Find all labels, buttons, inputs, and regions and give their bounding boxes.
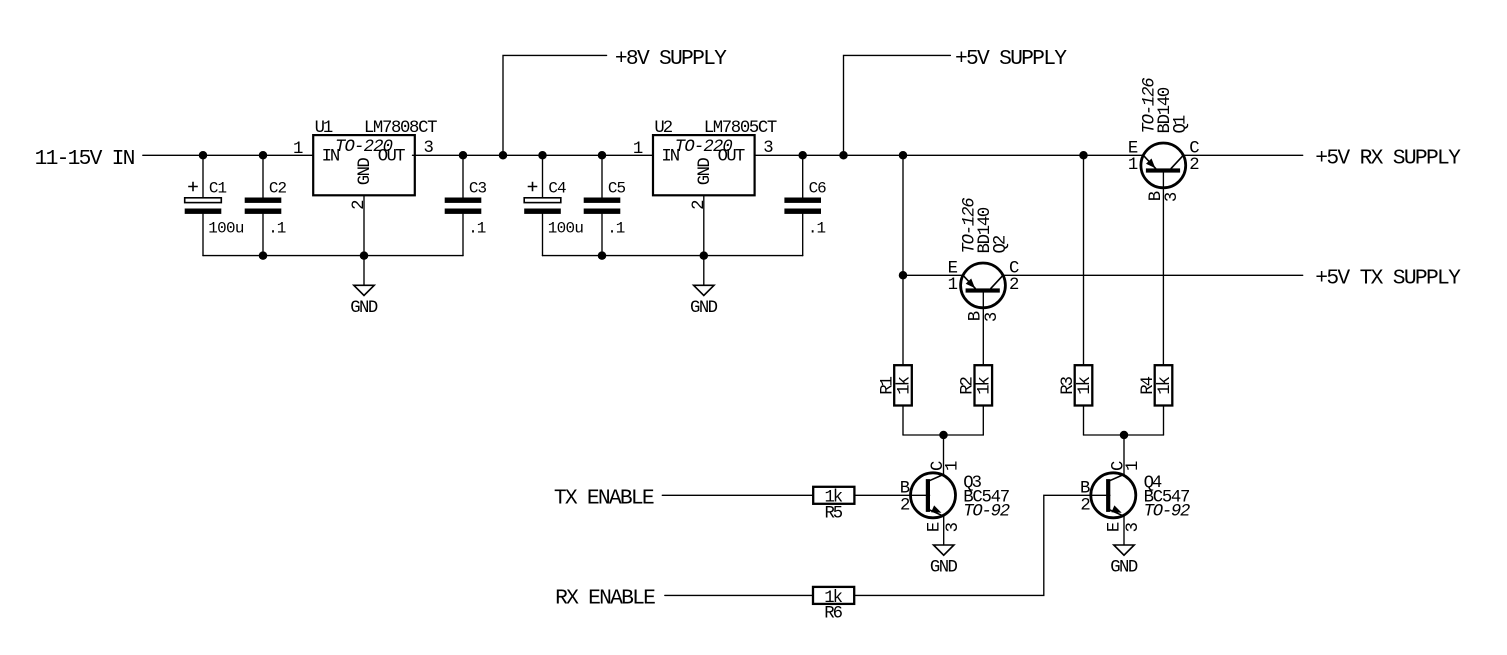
svg-text:2: 2 <box>900 497 910 516</box>
Q2 collector line <box>991 275 1003 288</box>
junction C6 on +5V rail <box>798 151 807 160</box>
svg-text:1: 1 <box>944 461 963 471</box>
svg-text:2: 2 <box>1189 156 1199 175</box>
svg-text:11-15V IN: 11-15V IN <box>35 147 136 171</box>
wire +5V rail down to R1 <box>902 155 904 365</box>
wire U1 pin 2 to ground rail <box>363 195 365 255</box>
svg-text:1: 1 <box>293 140 303 159</box>
svg-text:2: 2 <box>1009 276 1019 295</box>
junction R1 column on +5V rail <box>899 151 908 160</box>
svg-text:2: 2 <box>350 200 369 210</box>
capacitor C3 <box>445 155 487 255</box>
svg-text:3: 3 <box>763 139 773 158</box>
C5 top plate <box>584 198 621 203</box>
wire C1 top lead <box>202 155 204 197</box>
Q2 emitter line <box>963 275 975 288</box>
svg-text:+5V RX SUPPLY: +5V RX SUPPLY <box>1315 147 1461 171</box>
C1 positive plate <box>185 198 222 203</box>
C2 bottom plate <box>245 209 282 214</box>
svg-text:TX ENABLE: TX ENABLE <box>554 487 655 511</box>
svg-text:U1: U1 <box>315 119 334 138</box>
C4 plus sign <box>528 182 538 192</box>
svg-text:C5: C5 <box>608 179 626 197</box>
regulator U2 U2 LM7805CT <box>633 119 777 256</box>
wire +5V rail down to R3 <box>1083 155 1085 365</box>
U2 body <box>653 135 755 195</box>
svg-text:1k: 1k <box>1076 376 1095 395</box>
transistor Q3 BC547 NPN <box>900 461 1010 533</box>
Q4 base line <box>1091 494 1110 496</box>
transistor Q2 BD140 PNP <box>948 197 1020 322</box>
wire C2 top lead <box>262 155 264 197</box>
wire C5 top lead <box>601 155 603 197</box>
svg-text:IN: IN <box>661 147 680 166</box>
svg-text:IN: IN <box>322 147 341 166</box>
svg-text:3: 3 <box>424 139 434 158</box>
svg-text:GND: GND <box>1110 559 1138 578</box>
wire R2 bottom <box>982 406 984 436</box>
svg-text:1k: 1k <box>1156 376 1175 395</box>
svg-text:U2: U2 <box>654 119 673 138</box>
Q2 base bar <box>966 288 1000 292</box>
svg-text:GND: GND <box>356 157 375 185</box>
wire C2 bottom lead <box>262 214 264 256</box>
svg-text:1: 1 <box>1128 156 1138 175</box>
svg-text:E: E <box>1106 522 1125 532</box>
capacitor C4 <box>524 155 584 255</box>
svg-text:1: 1 <box>1124 461 1143 471</box>
svg-text:RX ENABLE: RX ENABLE <box>555 587 656 611</box>
svg-text:.1: .1 <box>808 220 826 238</box>
capacitor C6 <box>784 155 826 255</box>
svg-text:Q2: Q2 <box>991 235 1010 254</box>
svg-text:LM7805CT: LM7805CT <box>704 119 778 138</box>
svg-text:2: 2 <box>1080 497 1090 516</box>
junction +5V supply tap <box>839 151 848 160</box>
wire U2 pin 2 to ground rail <box>703 195 705 255</box>
wire Q1 base down to R4 <box>1162 172 1164 365</box>
wire R4 bottom <box>1163 406 1165 436</box>
svg-text:+8V SUPPLY: +8V SUPPLY <box>615 47 727 71</box>
junction C4 on +8V rail <box>538 151 547 160</box>
ground symbol GND under U1 <box>350 256 378 318</box>
C2 top plate <box>245 198 282 203</box>
Q1 base bar <box>1146 168 1180 172</box>
resistor R5 1k <box>813 487 854 524</box>
wire ground rail stage 2 <box>543 255 803 257</box>
svg-text:100u: 100u <box>208 220 244 238</box>
wire C4 top lead <box>542 155 544 197</box>
Q3 emitter arrow <box>931 505 941 512</box>
svg-text:GND: GND <box>930 559 958 578</box>
Q3 base line <box>911 494 930 496</box>
wire U2 out +5V rail to Q1 emitter <box>755 154 1144 156</box>
svg-text:3: 3 <box>944 522 963 532</box>
svg-text:3: 3 <box>983 312 1002 322</box>
Q4 emitter arrow <box>1111 505 1121 512</box>
svg-text:1k: 1k <box>895 376 914 395</box>
svg-text:GND: GND <box>696 157 715 185</box>
C3 top plate <box>445 198 482 203</box>
wire TX ENABLE to R5 <box>662 494 813 496</box>
junction C2 on input rail <box>259 151 268 160</box>
svg-text:C1: C1 <box>209 179 227 197</box>
svg-text:R5: R5 <box>824 504 843 523</box>
svg-text:1k: 1k <box>976 376 995 395</box>
ground symbol GND under Q4 <box>1110 515 1138 577</box>
junction C3 on +8V rail <box>459 151 468 160</box>
wire Q1 collector to +5V RX SUPPLY <box>1183 154 1302 156</box>
junction R3 column on +5V rail <box>1079 151 1088 160</box>
Q4 base bar <box>1106 479 1110 512</box>
wire junction down to Q3 collector <box>943 435 945 474</box>
wire Q2 collector to +5V TX SUPPLY <box>1003 274 1303 276</box>
svg-text:C4: C4 <box>548 179 566 197</box>
svg-text:100u: 100u <box>548 220 584 238</box>
C6 bottom plate <box>784 209 821 214</box>
junction C2 on ground rail <box>259 251 268 260</box>
transistor Q4 BC547 NPN <box>1080 461 1190 533</box>
Q3 emitter line <box>929 510 943 516</box>
wire R1 to Q3 collector rail <box>902 406 904 436</box>
junction R1/R2 to Q3 collector <box>939 431 948 440</box>
wire +5V supply riser <box>844 55 951 155</box>
svg-text:.1: .1 <box>268 220 286 238</box>
Q3 collector line <box>929 474 943 480</box>
C3 bottom plate <box>445 209 482 214</box>
Q1 emitter arrow <box>1146 159 1155 169</box>
ground symbol GND under Q3 <box>930 515 958 577</box>
svg-text:GND: GND <box>350 299 378 318</box>
C4 bottom plate <box>524 209 561 214</box>
C5 bottom plate <box>584 209 621 214</box>
svg-text:OUT: OUT <box>378 147 406 166</box>
C4 positive plate <box>524 198 561 203</box>
wire C4 bottom lead <box>542 214 544 256</box>
junction U1 pin2 on ground rail <box>360 251 369 260</box>
wire junction down to Q4 collector <box>1123 435 1125 474</box>
Q2 emitter arrow <box>966 279 975 289</box>
C1 bottom plate <box>185 209 222 214</box>
svg-text:OUT: OUT <box>718 147 746 166</box>
wire Q2 base down to R2 <box>982 292 984 365</box>
junction Q2 emitter tap <box>899 271 908 280</box>
ground symbol GND under U2 <box>690 256 718 318</box>
resistor R1 1k <box>878 365 914 405</box>
wire U1 out to U2 in (+8V rail) <box>413 154 654 156</box>
wire RX ENABLE to R6 <box>665 594 813 596</box>
junction R3/R4 to Q4 collector <box>1120 431 1129 440</box>
wire R3 bottom <box>1083 406 1085 436</box>
svg-text:R6: R6 <box>824 604 843 623</box>
svg-text:Q1: Q1 <box>1172 115 1191 134</box>
svg-text:.1: .1 <box>468 220 486 238</box>
svg-text:1: 1 <box>948 276 958 295</box>
wire C3 bottom lead <box>462 214 464 256</box>
svg-text:3: 3 <box>1124 522 1143 532</box>
wire C5 bottom lead <box>601 214 603 256</box>
regulator U1 U1 LM7808CT <box>293 119 437 256</box>
junction C5 on ground rail <box>598 251 607 260</box>
svg-text:C6: C6 <box>809 179 827 197</box>
svg-text:GND: GND <box>690 299 718 318</box>
svg-text:TO-92: TO-92 <box>1144 502 1191 521</box>
C1 plus sign <box>188 182 198 192</box>
capacitor C1 <box>185 155 245 255</box>
capacitor C5 <box>584 155 626 255</box>
wire C6 top lead <box>802 155 804 197</box>
svg-text:3: 3 <box>1163 192 1182 202</box>
svg-text:E: E <box>925 522 944 532</box>
svg-text:2: 2 <box>690 200 709 210</box>
U1 body <box>313 135 415 195</box>
junction C1 on input rail <box>199 151 208 160</box>
wire R6 to Q4 base <box>855 495 1091 595</box>
svg-text:TO-92: TO-92 <box>963 502 1010 521</box>
wire ground rail stage 1 <box>203 255 463 257</box>
resistor R2 1k <box>959 365 995 405</box>
Q3 base bar <box>926 479 930 512</box>
junction +8V supply tap <box>499 151 508 160</box>
svg-text:C3: C3 <box>469 179 487 197</box>
wire C6 bottom lead <box>802 214 804 256</box>
wire C1 bottom lead <box>202 214 204 256</box>
svg-text:+5V TX SUPPLY: +5V TX SUPPLY <box>1315 267 1461 291</box>
wire +8V supply riser <box>503 55 607 155</box>
transistor Q1 BD140 PNP <box>1128 77 1200 202</box>
svg-text:C2: C2 <box>269 179 287 197</box>
Q1 collector line <box>1171 155 1183 168</box>
wire R3/R4 bottom rail <box>1084 434 1164 436</box>
C6 top plate <box>784 198 821 203</box>
wire 11-15V IN rail to U1 pin1 <box>143 154 313 156</box>
svg-text:LM7808CT: LM7808CT <box>364 119 438 138</box>
Q4 collector line <box>1110 474 1124 480</box>
junction C5 on +8V rail <box>598 151 607 160</box>
resistor R6 1k <box>813 587 854 624</box>
wire +5V to Q2 emitter <box>903 274 963 276</box>
Q4 emitter line <box>1110 510 1124 516</box>
resistor R3 1k <box>1059 365 1095 405</box>
svg-text:1: 1 <box>633 140 643 159</box>
Q1 emitter line <box>1143 155 1155 168</box>
wire R5 to Q3 base <box>854 494 910 496</box>
capacitor C2 <box>245 155 287 255</box>
junction U2 pin2 on ground rail <box>700 251 709 260</box>
svg-text:+5V SUPPLY: +5V SUPPLY <box>955 47 1067 71</box>
wire C3 top lead <box>462 155 464 197</box>
wire R1/R2 bottom rail <box>903 434 983 436</box>
svg-text:.1: .1 <box>607 220 625 238</box>
resistor R4 1k <box>1139 365 1175 405</box>
